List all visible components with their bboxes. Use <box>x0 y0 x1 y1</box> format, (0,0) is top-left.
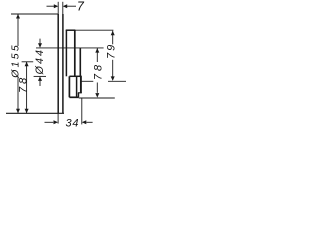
dim line 7 top right seg <box>67 5 76 7</box>
arrow D155 up <box>16 14 20 19</box>
hose block top edge <box>69 75 81 77</box>
extension line y29.8 right <box>75 29 113 31</box>
extension line y61.8 left (axis) <box>22 61 34 63</box>
dim line 78 right x97.3 lower <box>96 83 98 93</box>
plate front extension up <box>62 2 64 14</box>
plate front face <box>62 14 64 113</box>
dim line 79 x112.7 upper <box>112 31 114 45</box>
hose block right edge <box>80 76 82 93</box>
hose block left edge <box>68 76 70 97</box>
extension down x81.8 <box>81 98 83 124</box>
extension down from plate x58 <box>57 113 59 123</box>
svg-text:34: 34 <box>65 117 79 129</box>
handle body right edge <box>74 30 76 76</box>
dim line 78 left x26.6 <box>26 62 28 113</box>
dim stub D44 bottom <box>39 80 41 86</box>
svg-text:Ø44: Ø44 <box>34 48 46 75</box>
svg-text:7: 7 <box>77 0 85 14</box>
hose block inner edge <box>76 76 78 97</box>
extension line y98.1 right <box>79 97 115 99</box>
svg-text:79: 79 <box>106 43 118 59</box>
dim line 34 right seg <box>86 121 92 123</box>
dim line 78 right x97.3 upper <box>96 48 98 62</box>
arrow D155 down <box>16 109 20 114</box>
arrow D44 down-pointing (above) <box>38 43 42 48</box>
arrow 7 left-pointing <box>63 4 67 8</box>
plate back face <box>57 14 59 113</box>
handle body left edge <box>65 30 67 76</box>
arrow 78R up <box>95 48 99 53</box>
dim line 7 top left seg <box>47 5 55 7</box>
hose nipple step edge <box>78 92 82 94</box>
top extension line y14 <box>11 13 58 15</box>
arrow 78R down <box>95 93 99 98</box>
hose nipple right edge <box>78 93 80 98</box>
arrow D44 up-pointing (below) <box>38 76 42 81</box>
svg-text:Ø155: Ø155 <box>11 43 22 79</box>
long extension line y47.9 (handle hub top) <box>36 47 104 49</box>
arrow 79 down <box>111 76 115 81</box>
svg-text:78: 78 <box>18 75 30 93</box>
svg-text:78: 78 <box>92 62 104 80</box>
dim stub D44 top <box>39 39 41 44</box>
arrow 78L down <box>25 109 29 114</box>
hub front edge <box>79 48 81 76</box>
handle body top edge <box>66 29 76 31</box>
arrow 79 up <box>111 31 115 36</box>
extension line y81.3 right seg b <box>108 80 126 82</box>
bottom extension line y113.3 <box>6 112 64 114</box>
plate back extension up <box>57 2 59 14</box>
dim line D155 x18 lower <box>17 77 19 114</box>
dim line 34 left seg <box>45 121 54 123</box>
arrow 78L up <box>25 62 29 67</box>
extension line y76.4 left <box>34 75 46 77</box>
dim line D155 x18 upper <box>17 14 19 46</box>
extension line y81.3 right seg a <box>81 80 93 82</box>
arrow 34 right-pointing <box>54 120 59 124</box>
arrow 34 left-pointing <box>82 120 87 124</box>
arrow 7 right-pointing <box>54 4 59 8</box>
dim line 79 x112.7 lower <box>112 60 114 77</box>
hose block bottom edge <box>69 96 78 98</box>
